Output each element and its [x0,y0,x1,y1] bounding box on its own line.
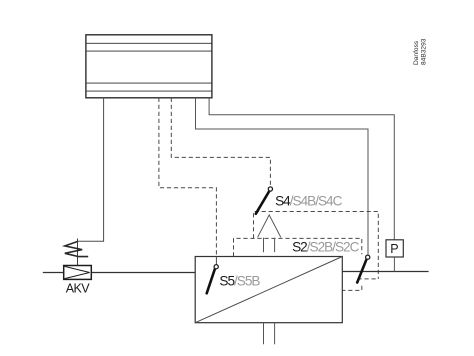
switch S5 terminal circle [214,265,218,269]
evaporator box [195,257,342,323]
switch thermostat terminal circle [366,255,370,259]
switch S4 terminal circle [268,187,272,191]
switch S5 blade [207,269,215,293]
spring of AKV [65,242,88,257]
wire inner to contact [196,98,369,255]
wire liquid line left [78,98,104,241]
pipe suction line right [342,271,428,273]
wire outer to P [209,98,394,240]
svg-text:S2/S2B/S2C: S2/S2B/S2C [292,240,360,255]
svg-text:84B3293: 84B3293 [420,38,427,65]
pressure transmitter P box [386,240,403,257]
wire dashed S2 contact bottom [342,286,362,291]
dashed box S4 contacts [254,212,379,279]
diagonal of evaporator box [195,257,342,323]
valve AKV [64,266,92,280]
switch thermostat blade [357,260,366,283]
svg-text:S5/S5B: S5/S5B [219,274,260,289]
svg-text:AKV: AKV [66,282,90,296]
svg-text:P: P [390,242,398,256]
svg-text:S4/S4B/S4C: S4/S4B/S4C [275,194,343,209]
switch S4 blade [256,191,269,214]
air flow shafts above box [263,238,265,252]
dashed box S2 contacts [234,238,362,256]
wire dashed S5 sensor [159,98,217,257]
label Danfoss 84B3293 [413,38,427,65]
stub wire S5 circle [215,257,217,265]
wire P to pipe [393,257,395,272]
air flow arrowhead [258,215,281,344]
svg-text:Danfoss: Danfoss [413,40,420,65]
wire dashed S4 sensor [171,98,270,187]
pipe liquid line [43,272,195,274]
air flow shafts below box [263,323,265,345]
heat exchanger block HX1 [86,35,212,98]
wire spring to valve [77,239,79,266]
wire dashed S4 contact bottom [358,278,379,280]
